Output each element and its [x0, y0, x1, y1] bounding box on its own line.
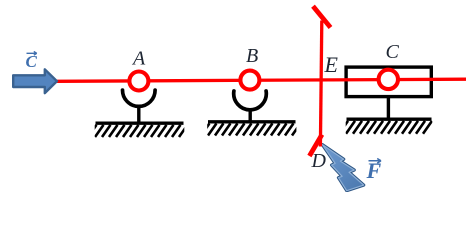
ground bar B [208, 120, 296, 123]
detector box [346, 67, 431, 97]
wire: horizontal red beam [57, 79, 467, 81]
lens B circle [240, 71, 259, 90]
ground bar A [96, 121, 184, 124]
post A [137, 107, 140, 123]
ground hatch C [339, 121, 432, 134]
svg-text:C: C [386, 41, 400, 63]
svg-text:C: C [26, 52, 38, 71]
label vector C [26, 51, 38, 71]
svg-text:E: E [324, 52, 339, 77]
mount arc A [123, 90, 156, 106]
svg-text:A: A [131, 48, 146, 70]
force lightning bolt F [321, 145, 365, 192]
ground hatch B [201, 124, 300, 136]
post C [387, 97, 390, 119]
ground bar C [347, 117, 432, 120]
wire: vertical red beam [320, 21, 321, 147]
label vector F [366, 158, 382, 183]
ground hatch A [88, 125, 188, 137]
svg-text:D: D [311, 150, 327, 172]
mirror tick top [313, 6, 331, 27]
mirror tick D (bottom) [309, 135, 322, 157]
source block arrow C [13, 69, 57, 93]
svg-text:B: B [246, 45, 258, 67]
lens A circle [129, 72, 148, 91]
mount arc B [234, 91, 267, 110]
post B [248, 108, 251, 122]
lens C circle [379, 70, 398, 89]
